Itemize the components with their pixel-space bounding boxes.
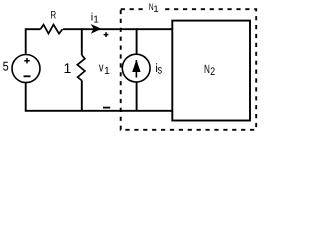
svg-text:s: s [158, 62, 163, 76]
svg-text:1: 1 [64, 60, 72, 76]
wire: 1-ohm branch, top node down to resistor top [81, 28, 83, 55]
wire: bottom return node to N2 left terminal [25, 110, 173, 112]
current i1 arrowhead on top wire [92, 25, 101, 33]
resistor 1 ohm (vertical zigzag) [77, 55, 85, 80]
voltage source 5 (circle) [12, 55, 40, 83]
network N2 box [172, 21, 250, 121]
current source is arrow (up) [135, 60, 137, 78]
voltage source + mark [24, 58, 29, 63]
gap in N1 boundary under its label [146, 2, 161, 15]
svg-text:5: 5 [3, 59, 9, 73]
svg-text:2: 2 [210, 66, 215, 78]
wire: 1-ohm branch, resistor bottom down to bottom node [81, 81, 83, 111]
svg-text:N: N [204, 62, 210, 76]
svg-text:1: 1 [104, 65, 110, 77]
wire: left branch, source - terminal down to bottom corner [25, 83, 27, 111]
network N1 dashed boundary box [121, 9, 257, 130]
current source is (circle) [122, 54, 150, 82]
svg-text:1: 1 [93, 15, 99, 26]
wire: current source branch, source bottom down to bottom node [136, 82, 138, 111]
v1 polarity + mark [104, 32, 109, 37]
voltage source - mark [24, 75, 31, 77]
v1 polarity - mark [103, 107, 110, 109]
wire: left branch, source + terminal up to top corner [25, 28, 27, 53]
svg-text:R: R [50, 10, 56, 22]
wire: current source branch, top node down to source top [136, 28, 138, 54]
svg-text:1: 1 [153, 4, 158, 15]
resistor R (horizontal zigzag) [41, 25, 63, 34]
wire: top node, source corner to resistor R left end [26, 28, 41, 30]
wire: top node, resistor R right end to N2 left terminal [63, 28, 172, 30]
